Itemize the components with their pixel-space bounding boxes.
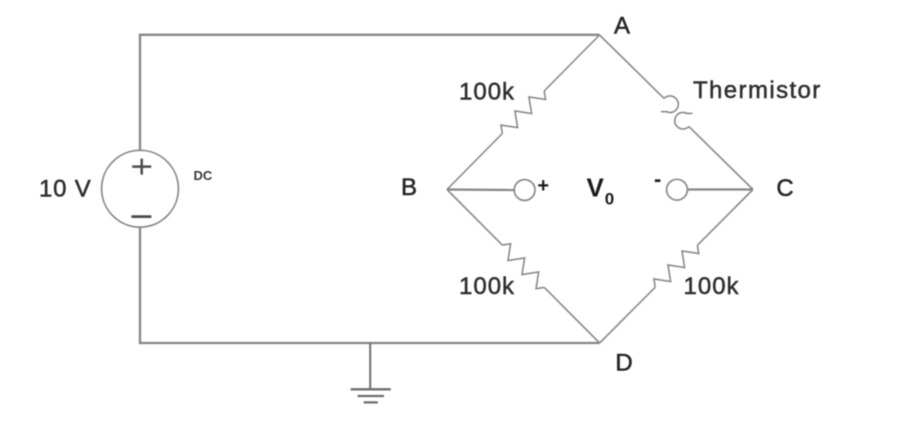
voltage source V1 [102,150,179,227]
svg-text:D: D [615,349,632,376]
svg-text:+: + [537,175,549,197]
wire: V1 - terminal down to bottom rail [139,227,141,344]
ground G1 [351,343,391,402]
wire: resistor R3 to node C [697,190,753,246]
svg-text:10 V: 10 V [39,176,92,203]
svg-text:Thermistor: Thermistor [693,77,822,104]
wire: node B to resistor R1 [447,134,502,190]
thermistor RT1 [661,96,693,129]
wire: resistor R1 to node A [544,35,599,91]
probe terminal - (circle) [667,179,688,200]
wire: node D to resistor R3 [600,287,656,343]
svg-text:B: B [401,174,417,201]
svg-text:V: V [587,172,605,202]
label V0 [587,172,615,208]
resistor R2 [502,244,544,289]
svg-text:100k: 100k [459,273,515,300]
svg-text:100k: 100k [459,79,515,106]
wire: node B to + probe [447,188,514,191]
svg-text:0: 0 [605,190,614,209]
wire: bottom rail from source to node D [139,342,600,344]
svg-text:100k: 100k [684,273,740,300]
resistor R1 [501,91,546,134]
wire: node A to thermistor RT1 [600,35,665,98]
svg-text:-: - [654,167,661,192]
svg-text:C: C [776,175,793,202]
wire: node B to resistor R2 [447,190,502,246]
wire: resistor R2 to node D [544,287,599,343]
wire: thermistor RT1 to node C [689,127,753,190]
svg-text:DC: DC [194,168,213,183]
wire: - probe to node C [687,188,753,190]
resistor R3 [654,245,699,287]
wire: left rail top segment down to V1 + terminal [139,34,141,151]
probe terminal + (circle) [514,180,535,201]
wire: top rail from source to node A [139,34,600,36]
svg-text:A: A [614,13,630,40]
